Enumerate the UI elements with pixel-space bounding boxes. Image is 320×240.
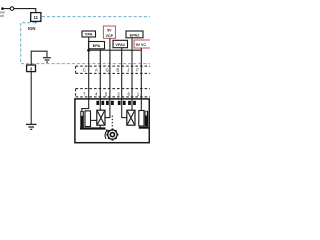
wire stub 5V VC2 — [140, 48, 142, 50]
noise filter on W5 — [128, 101, 136, 105]
label box 5V VCP — [103, 26, 115, 38]
label box 5V VC2 — [134, 40, 151, 48]
base bar left — [80, 127, 106, 129]
connector box 11 — [31, 13, 41, 22]
magnet bar left slot — [81, 112, 82, 116]
link hall to X1 — [91, 119, 97, 121]
magnet bar right slot — [146, 112, 147, 116]
ground G1 — [43, 58, 51, 62]
label box VPA — [82, 31, 96, 37]
svg-text:5V: 5V — [107, 28, 112, 32]
svg-text:B: B — [116, 67, 119, 72]
label box EPA2 — [126, 31, 143, 38]
rotation arrow arc — [105, 130, 108, 139]
label box VPA2 — [113, 40, 128, 47]
wire W2 EPA to sensor — [99, 49, 101, 111]
svg-text:J: J — [127, 67, 129, 72]
svg-text:VCP: VCP — [106, 34, 114, 38]
sensor element X2 — [127, 110, 135, 125]
svg-text:VPA2: VPA2 — [115, 43, 125, 47]
hall element right — [139, 111, 144, 127]
noise filter on W2 — [96, 101, 104, 105]
wire W6 down to sensor — [140, 50, 142, 110]
svg-text:IGN: IGN — [28, 26, 35, 31]
svg-text:11: 11 — [33, 15, 38, 20]
svg-text:EPA2: EPA2 — [130, 33, 140, 37]
svg-text:A: A — [95, 67, 98, 72]
ground G2 — [26, 124, 37, 129]
wire W3 5V VCP to sensor — [105, 38, 110, 117]
wire box3 down — [30, 72, 32, 124]
noise filter on W4 — [118, 101, 126, 105]
wire W5 EPA2 to sensor — [131, 38, 133, 111]
svg-text:ch: ch — [0, 14, 4, 18]
wire box3 to ground G1 — [31, 51, 47, 65]
wire stub box11 bottom — [35, 21, 37, 23]
sensor element X1 — [97, 110, 105, 125]
wire W1 VPA to sensor — [82, 37, 89, 111]
connector box 3 — [27, 65, 36, 72]
mechanical link dotted — [111, 116, 113, 129]
X1 bottom stub — [99, 125, 101, 127]
connector row numbers (dashed) — [76, 89, 150, 97]
noise filter on W3 — [106, 101, 114, 105]
svg-text:5V VC: 5V VC — [136, 43, 147, 47]
motor gear — [106, 129, 118, 141]
magnet bar right — [145, 111, 149, 127]
wire top power feed — [3, 8, 36, 10]
wire link W1 to W6 — [89, 49, 142, 51]
connector circle — [10, 7, 14, 11]
wire drop to box 11 — [35, 8, 37, 13]
svg-text:EPA: EPA — [93, 44, 101, 48]
base bar right — [139, 127, 149, 129]
hall element left — [85, 111, 91, 127]
magnet bar left — [80, 111, 84, 127]
junction dot — [1, 7, 4, 10]
wire blue dashed left-down route — [21, 23, 150, 64]
wire W4 VPA2 to sensor — [122, 48, 127, 118]
connector row letters (dashed) — [76, 66, 150, 73]
svg-text:VPA: VPA — [85, 33, 93, 37]
label box EPA — [89, 42, 105, 49]
accelerator pedal sensor unit box — [75, 99, 149, 143]
wire blue dashed right from box 11 — [42, 16, 150, 18]
svg-text:F: F — [136, 67, 139, 72]
junction dot W1 link — [87, 49, 90, 52]
svg-text:G: G — [105, 67, 109, 72]
